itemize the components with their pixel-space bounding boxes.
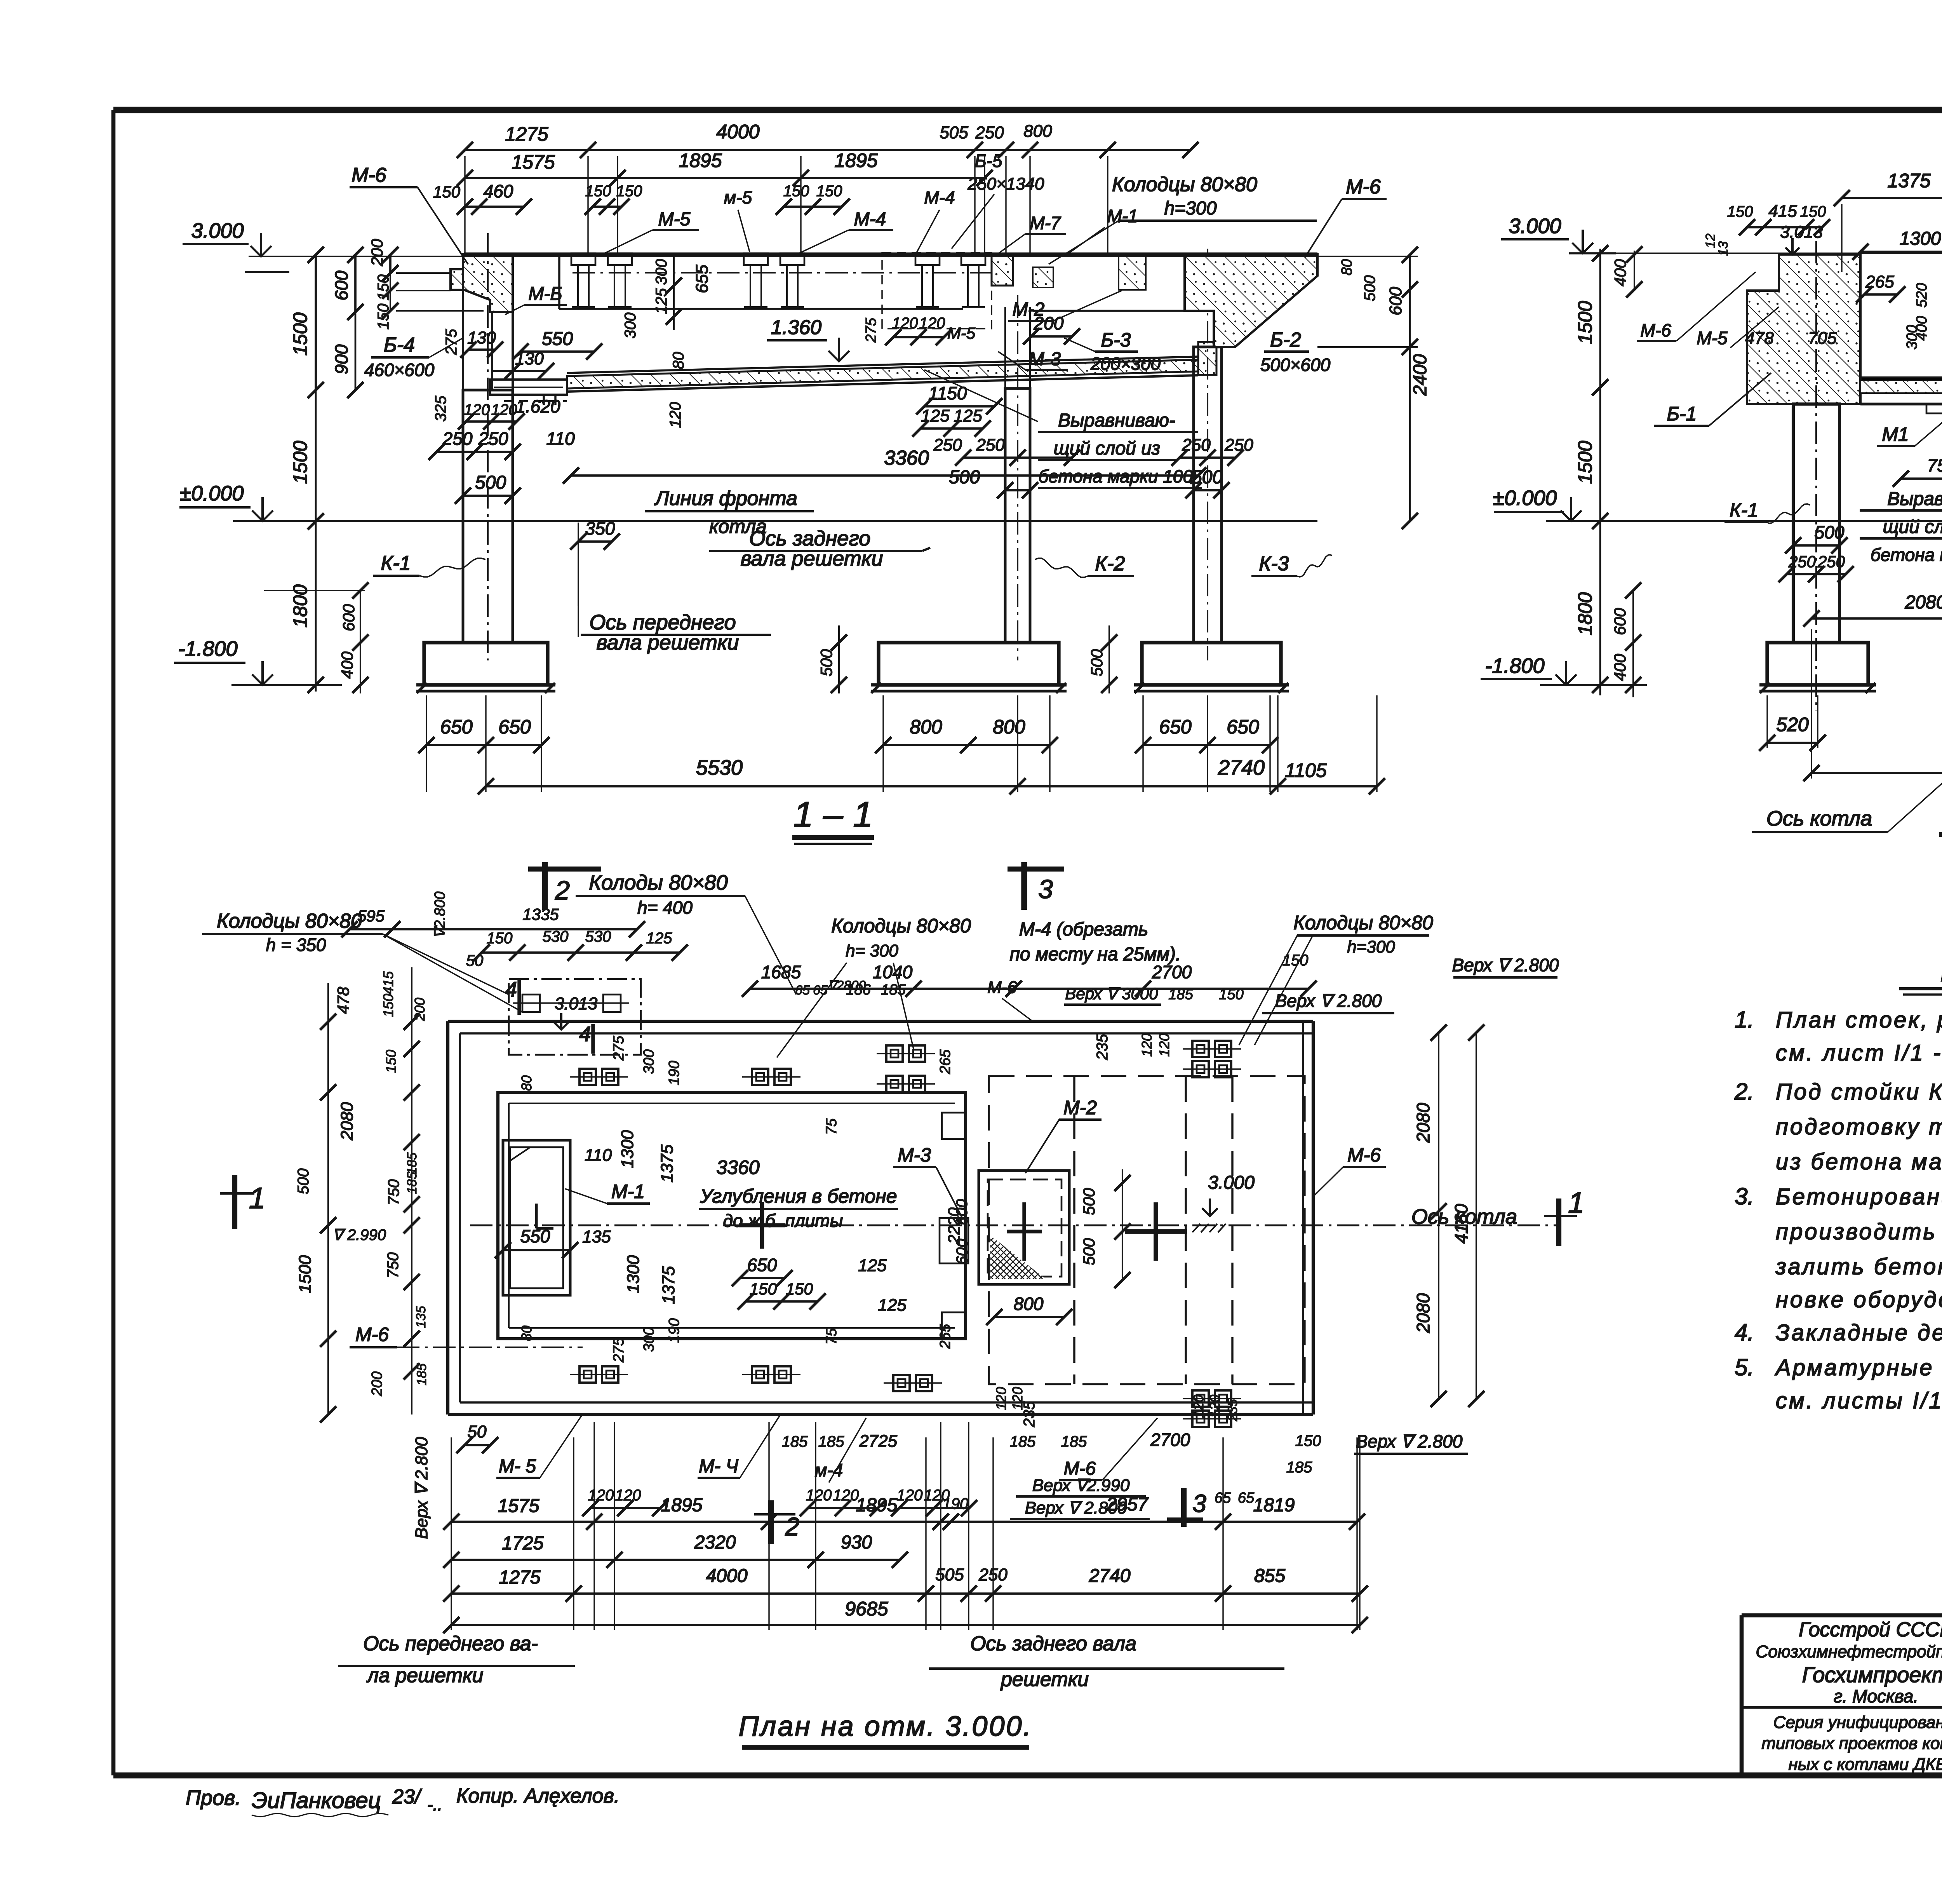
svg-text:150: 150 xyxy=(433,183,461,201)
svg-text:65: 65 xyxy=(795,983,810,998)
svg-text:65: 65 xyxy=(1215,1490,1231,1506)
svg-text:185: 185 xyxy=(782,1433,808,1450)
svg-text:300: 300 xyxy=(653,259,670,285)
svg-text:250: 250 xyxy=(933,435,962,455)
svg-text:М-7: М-7 xyxy=(1030,213,1061,233)
svg-text:150: 150 xyxy=(1727,203,1753,220)
svg-text:1105: 1105 xyxy=(1285,760,1327,781)
svg-text:вала решетки: вала решетки xyxy=(741,547,883,570)
svg-text:650: 650 xyxy=(747,1255,777,1275)
svg-text:530: 530 xyxy=(543,928,569,945)
svg-text:478: 478 xyxy=(334,986,352,1014)
svg-text:3.013: 3.013 xyxy=(1780,223,1823,242)
svg-text:см. листы I/1 - КЖ- 29 ÷ I/1 -: см. листы I/1 - КЖ- 29 ÷ I/1 - КЖ-37. xyxy=(1776,1388,1942,1413)
svg-text:h= 300: h= 300 xyxy=(846,941,898,960)
svg-text:800: 800 xyxy=(910,716,942,738)
svg-text:120: 120 xyxy=(667,402,684,428)
svg-text:500: 500 xyxy=(1080,1238,1098,1265)
svg-text:1375: 1375 xyxy=(1887,170,1930,192)
svg-text:Б-1: Б-1 xyxy=(1667,403,1697,425)
svg-text:М-3: М-3 xyxy=(1029,349,1061,369)
svg-text:подготовку толщиной 100мм.: подготовку толщиной 100мм. xyxy=(1776,1114,1942,1139)
svg-text:1: 1 xyxy=(1568,1186,1584,1219)
svg-text:1275: 1275 xyxy=(499,1567,541,1588)
svg-text:1.: 1. xyxy=(1735,1007,1754,1033)
svg-text:500: 500 xyxy=(949,467,980,488)
svg-text:2080: 2080 xyxy=(1413,1293,1433,1333)
svg-text:м-4: м-4 xyxy=(815,1460,843,1480)
svg-text:2080: 2080 xyxy=(1413,1103,1433,1143)
svg-text:Верх ∇2.990: Верх ∇2.990 xyxy=(1032,1476,1130,1495)
svg-text:500: 500 xyxy=(1080,1188,1098,1215)
svg-text:1575: 1575 xyxy=(498,1496,539,1516)
svg-text:80: 80 xyxy=(519,1326,534,1341)
svg-text:120: 120 xyxy=(924,1487,950,1504)
svg-text:1895: 1895 xyxy=(834,150,877,171)
svg-text:2700: 2700 xyxy=(1152,962,1192,982)
svg-text:1895: 1895 xyxy=(661,1495,703,1516)
svg-text:1819: 1819 xyxy=(1253,1495,1295,1516)
svg-text:75: 75 xyxy=(823,1328,840,1345)
svg-text:h= 400: h= 400 xyxy=(637,897,693,918)
svg-text:110: 110 xyxy=(585,1146,612,1165)
svg-text:2080: 2080 xyxy=(1905,592,1942,613)
svg-text:600: 600 xyxy=(331,270,352,300)
svg-text:К-3: К-3 xyxy=(1259,552,1289,575)
svg-text:300: 300 xyxy=(641,1327,657,1352)
svg-text:3: 3 xyxy=(1192,1489,1206,1517)
svg-text:460: 460 xyxy=(484,181,513,201)
svg-text:275: 275 xyxy=(611,1337,627,1362)
svg-text:Выравниваю-: Выравниваю- xyxy=(1887,489,1942,509)
svg-text:5.: 5. xyxy=(1735,1354,1754,1380)
svg-text:Колодцы 80×80: Колодцы 80×80 xyxy=(831,915,971,937)
svg-text:190: 190 xyxy=(666,1061,682,1085)
svg-text:550: 550 xyxy=(520,1226,550,1246)
svg-text:275: 275 xyxy=(443,329,460,355)
svg-text:855: 855 xyxy=(1254,1566,1285,1586)
svg-text:3.000: 3.000 xyxy=(1509,214,1561,238)
svg-text:1 – 1: 1 – 1 xyxy=(794,795,873,834)
svg-text:Ось котла: Ось котла xyxy=(1766,807,1872,830)
svg-text:120: 120 xyxy=(1156,1033,1172,1057)
svg-text:120: 120 xyxy=(897,1487,923,1504)
svg-text:Верх ∇ 2.800: Верх ∇ 2.800 xyxy=(1356,1431,1463,1451)
svg-text:150: 150 xyxy=(1800,203,1826,220)
svg-text:120: 120 xyxy=(615,1487,641,1504)
svg-text:120: 120 xyxy=(993,1387,1009,1410)
svg-text:Ось заднего: Ось заднего xyxy=(749,527,871,550)
svg-text:Госстрой СССР: Госстрой СССР xyxy=(1799,1618,1942,1641)
svg-text:520: 520 xyxy=(1776,714,1809,735)
svg-text:М-6: М-6 xyxy=(1346,176,1381,198)
svg-text:М- Ч: М- Ч xyxy=(699,1456,738,1477)
svg-text:2740: 2740 xyxy=(1218,756,1265,779)
svg-text:М-4: М-4 xyxy=(854,209,886,230)
svg-text:500×600: 500×600 xyxy=(1260,355,1331,375)
svg-text:500: 500 xyxy=(295,1169,312,1195)
svg-text:150: 150 xyxy=(585,183,611,200)
svg-text:190: 190 xyxy=(666,1318,682,1343)
svg-text:Закладные детали см. лист I/1: Закладные детали см. лист I/1 - КЖ- 38 xyxy=(1776,1320,1942,1345)
svg-text:415: 415 xyxy=(380,971,396,995)
svg-text:150: 150 xyxy=(1219,986,1243,1003)
svg-text:150: 150 xyxy=(375,275,392,301)
svg-text:135: 135 xyxy=(582,1227,611,1246)
svg-text:М-6: М-6 xyxy=(1640,320,1671,340)
svg-text:Б-2: Б-2 xyxy=(1270,329,1301,351)
svg-text:h = 350: h = 350 xyxy=(266,935,326,955)
svg-text:235: 235 xyxy=(1225,1399,1240,1422)
svg-text:Колодцы 80×80: Колодцы 80×80 xyxy=(1293,912,1433,934)
svg-text:1500: 1500 xyxy=(1574,301,1596,344)
svg-text:185: 185 xyxy=(1061,1433,1087,1450)
svg-text:h=300: h=300 xyxy=(1347,937,1395,956)
svg-text:250: 250 xyxy=(976,435,1005,455)
svg-text:1300: 1300 xyxy=(624,1255,643,1293)
svg-text:М-1: М-1 xyxy=(611,1181,645,1202)
svg-text:План стоек, разрез 3-3 и схему: План стоек, разрез 3-3 и схему нагрузок xyxy=(1776,1007,1942,1033)
svg-text:М-6: М-6 xyxy=(987,978,1017,997)
svg-text:265: 265 xyxy=(937,1324,954,1349)
svg-text:4000: 4000 xyxy=(716,121,759,143)
svg-text:Линия фронта: Линия фронта xyxy=(654,487,797,510)
svg-text:200: 200 xyxy=(368,239,386,267)
svg-text:120: 120 xyxy=(1190,1395,1206,1418)
svg-text:3.: 3. xyxy=(1735,1183,1754,1209)
svg-text:50: 50 xyxy=(466,952,484,969)
svg-text:М1: М1 xyxy=(1882,423,1909,445)
svg-text:±0.000: ±0.000 xyxy=(1493,486,1557,510)
svg-text:1040: 1040 xyxy=(873,962,913,982)
svg-text:Колоды 80×80: Колоды 80×80 xyxy=(589,871,727,894)
svg-text:1500: 1500 xyxy=(296,1255,315,1293)
svg-text:Б-4: Б-4 xyxy=(384,334,415,356)
svg-text:производить до волнистой линии: производить до волнистой линии , выше xyxy=(1776,1219,1942,1244)
svg-text:К-2: К-2 xyxy=(1095,552,1125,575)
svg-text:500: 500 xyxy=(1192,467,1223,488)
svg-text:Пров.: Пров. xyxy=(186,1786,241,1810)
svg-text:1300: 1300 xyxy=(1900,228,1941,249)
svg-text:∇ 2.990: ∇ 2.990 xyxy=(332,1226,386,1244)
svg-text:бетона марки „100”: бетона марки „100” xyxy=(1871,545,1942,565)
svg-text:80: 80 xyxy=(1339,259,1355,275)
svg-text:125: 125 xyxy=(858,1256,887,1275)
svg-text:120: 120 xyxy=(588,1487,614,1504)
svg-text:3360: 3360 xyxy=(884,447,929,469)
svg-text:Углубления в бетоне: Углубления в бетоне xyxy=(700,1185,897,1207)
svg-text:1725: 1725 xyxy=(502,1533,544,1554)
svg-text:65: 65 xyxy=(813,983,828,998)
svg-text:Копир. Алęхелов.: Копир. Алęхелов. xyxy=(456,1785,619,1807)
svg-text:Примечания:: Примечания: xyxy=(1940,955,1942,988)
svg-text:505: 505 xyxy=(935,1565,964,1584)
svg-text:М-4: М-4 xyxy=(924,187,955,207)
svg-text:залить бетоном с мелким гравие: залить бетоном с мелким гравием при уста… xyxy=(1775,1254,1942,1279)
svg-text:150: 150 xyxy=(783,183,809,200)
svg-text:щий слой из: щий слой из xyxy=(1054,438,1160,459)
svg-text:h=300: h=300 xyxy=(1164,198,1217,219)
svg-text:М-Б: М-Б xyxy=(528,284,562,304)
svg-text:150: 150 xyxy=(380,994,396,1017)
svg-text:200: 200 xyxy=(369,1371,385,1396)
svg-text:1575: 1575 xyxy=(512,151,555,173)
svg-text:300: 300 xyxy=(1904,325,1920,349)
svg-text:К-1: К-1 xyxy=(381,552,411,575)
svg-text:бетона марки 100·: бетона марки 100· xyxy=(1039,466,1199,486)
svg-text:550: 550 xyxy=(542,329,573,349)
svg-text:3.000: 3.000 xyxy=(1208,1172,1255,1193)
svg-text:М-2: М-2 xyxy=(1063,1097,1097,1118)
svg-text:Верх ∇ 2.800: Верх ∇ 2.800 xyxy=(1275,991,1382,1011)
svg-text:530: 530 xyxy=(585,928,611,945)
svg-text:65: 65 xyxy=(1238,1490,1255,1506)
svg-text:новке оборудования.: новке оборудования. xyxy=(1776,1287,1942,1312)
svg-text:4.: 4. xyxy=(1735,1319,1754,1345)
svg-text:750: 750 xyxy=(385,1252,402,1279)
svg-text:120: 120 xyxy=(464,401,490,418)
svg-text:ла решетки: ла решетки xyxy=(366,1664,484,1687)
svg-text:ных с котлами ДКВР.: ных с котлами ДКВР. xyxy=(1788,1755,1942,1774)
svg-text:705: 705 xyxy=(1808,329,1837,348)
svg-text:900: 900 xyxy=(331,344,352,374)
svg-text:80: 80 xyxy=(519,1075,534,1091)
svg-text:655: 655 xyxy=(693,265,712,293)
svg-text:125: 125 xyxy=(646,930,672,947)
svg-text:250: 250 xyxy=(1224,435,1253,455)
svg-text:М-1: М-1 xyxy=(1107,206,1138,226)
svg-text:М-6: М-6 xyxy=(352,164,386,186)
svg-text:Ось переднего: Ось переднего xyxy=(589,611,736,634)
svg-text:1500: 1500 xyxy=(289,312,311,355)
svg-text:4: 4 xyxy=(505,978,517,1001)
svg-text:3: 3 xyxy=(1038,874,1053,904)
svg-text:500: 500 xyxy=(475,472,506,493)
svg-text:1275: 1275 xyxy=(505,123,548,145)
svg-text:125: 125 xyxy=(878,1296,907,1315)
svg-text:120: 120 xyxy=(892,315,918,332)
svg-text:М-6: М-6 xyxy=(1347,1144,1381,1166)
svg-text:150: 150 xyxy=(375,304,392,330)
svg-text:800: 800 xyxy=(993,716,1025,738)
svg-text:9685: 9685 xyxy=(845,1598,888,1620)
svg-text:1.620: 1.620 xyxy=(515,396,560,416)
svg-text:120: 120 xyxy=(1207,1395,1223,1418)
svg-text:2080: 2080 xyxy=(338,1102,357,1141)
svg-text:150: 150 xyxy=(487,930,513,947)
svg-text:Верх ∇ 2.800: Верх ∇ 2.800 xyxy=(1452,955,1559,975)
svg-text:М- 5: М- 5 xyxy=(499,1456,536,1477)
svg-text:Верх ∇ 2.800: Верх ∇ 2.800 xyxy=(412,1437,431,1539)
svg-text:505: 505 xyxy=(940,123,968,142)
svg-text:4160: 4160 xyxy=(1451,1204,1471,1244)
svg-text:120: 120 xyxy=(919,315,945,332)
svg-text:275: 275 xyxy=(611,1035,627,1061)
svg-text:4000: 4000 xyxy=(706,1566,748,1586)
svg-text:120: 120 xyxy=(1139,1033,1155,1057)
svg-text:1895: 1895 xyxy=(856,1495,898,1516)
svg-text:±0.000: ±0.000 xyxy=(180,482,244,505)
svg-text:520: 520 xyxy=(1914,283,1930,307)
svg-text:235: 235 xyxy=(1094,1034,1111,1060)
svg-text:Ось переднего ва-: Ось переднего ва- xyxy=(363,1632,538,1655)
svg-text:500: 500 xyxy=(817,649,835,676)
svg-text:1300: 1300 xyxy=(618,1130,637,1168)
svg-text:185: 185 xyxy=(1010,1433,1036,1450)
svg-text:М-6: М-6 xyxy=(355,1324,389,1345)
svg-text:150: 150 xyxy=(816,183,842,200)
svg-text:М-5: М-5 xyxy=(947,324,976,342)
svg-text:2: 2 xyxy=(555,876,570,905)
svg-text:см. лист I/1 - КЖ-28.: см. лист I/1 - КЖ-28. xyxy=(1776,1040,1942,1066)
svg-text:120: 120 xyxy=(833,1487,859,1504)
svg-text:185: 185 xyxy=(818,1433,844,1450)
svg-text:650: 650 xyxy=(498,716,531,738)
svg-text:Верх ∇ 3000: Верх ∇ 3000 xyxy=(1065,984,1158,1003)
svg-text:600: 600 xyxy=(1611,608,1629,635)
svg-text:200×300: 200×300 xyxy=(1090,354,1161,374)
svg-text:120: 120 xyxy=(1009,1387,1025,1410)
svg-text:м-5: м-5 xyxy=(724,187,752,207)
svg-text:750: 750 xyxy=(1927,455,1942,476)
svg-text:1800: 1800 xyxy=(1574,592,1596,635)
svg-text:М-4 (обрезать: М-4 (обрезать xyxy=(1019,919,1148,940)
svg-text:-..: -.. xyxy=(427,1795,442,1814)
svg-text:500: 500 xyxy=(1361,275,1378,301)
svg-text:План на отм. 3.000.: План на отм. 3.000. xyxy=(739,1711,1033,1742)
svg-text:300: 300 xyxy=(622,313,639,339)
svg-text:5530: 5530 xyxy=(696,756,743,779)
svg-text:3.000: 3.000 xyxy=(191,219,244,242)
svg-text:150: 150 xyxy=(616,183,642,200)
svg-text:М-3: М-3 xyxy=(898,1144,931,1166)
svg-text:75: 75 xyxy=(823,1118,840,1135)
svg-text:250: 250 xyxy=(442,429,473,449)
svg-text:К-1: К-1 xyxy=(1730,499,1758,521)
svg-text:Выравниваю-: Выравниваю- xyxy=(1058,410,1175,431)
svg-text:Союзхимнефтестройпроект: Союзхимнефтестройпроект xyxy=(1756,1642,1942,1661)
svg-text:800: 800 xyxy=(1014,1294,1044,1314)
svg-text:-1.800: -1.800 xyxy=(178,637,237,660)
svg-text:2740: 2740 xyxy=(1089,1566,1131,1586)
svg-text:930: 930 xyxy=(841,1532,872,1553)
svg-text:2320: 2320 xyxy=(694,1532,736,1553)
svg-text:1375: 1375 xyxy=(658,1144,677,1183)
svg-text:110: 110 xyxy=(546,429,575,449)
svg-text:решетки: решетки xyxy=(1000,1668,1089,1691)
svg-text:120: 120 xyxy=(806,1487,832,1504)
svg-text:500: 500 xyxy=(1088,649,1106,676)
svg-text:1335: 1335 xyxy=(522,905,559,923)
svg-text:Колодцы 80×80: Колодцы 80×80 xyxy=(1112,173,1257,196)
svg-text:600: 600 xyxy=(339,604,358,631)
svg-text:800: 800 xyxy=(1023,122,1052,141)
svg-text:2: 2 xyxy=(785,1512,800,1541)
svg-text:Ось заднего вала: Ось заднего вала xyxy=(970,1632,1136,1655)
svg-text:23/: 23/ xyxy=(392,1786,422,1808)
svg-text:150: 150 xyxy=(786,1280,813,1298)
svg-text:-1.800: -1.800 xyxy=(1485,654,1544,678)
svg-text:вала решетки: вала решетки xyxy=(597,631,739,654)
svg-text:Госхимпроект: Госхимпроект xyxy=(1802,1662,1942,1687)
svg-text:2725: 2725 xyxy=(859,1432,897,1451)
svg-text:Б-5: Б-5 xyxy=(975,151,1002,171)
svg-text:150: 150 xyxy=(1282,952,1309,969)
svg-text:щий слой из: щий слой из xyxy=(1883,517,1942,537)
svg-text:415: 415 xyxy=(1768,202,1797,221)
svg-text:∇2.800: ∇2.800 xyxy=(432,892,448,939)
svg-text:595: 595 xyxy=(357,907,385,925)
svg-text:ЭиПанковец: ЭиПанковец xyxy=(252,1788,381,1813)
svg-text:750: 750 xyxy=(385,1179,402,1205)
svg-text:М-5: М-5 xyxy=(1697,328,1728,348)
svg-text:250: 250 xyxy=(975,123,1004,142)
svg-text:по месту на 25мм).: по месту на 25мм). xyxy=(1010,944,1181,965)
svg-text:275: 275 xyxy=(863,317,879,343)
svg-text:135: 135 xyxy=(414,1306,428,1328)
svg-text:Бетонирование консоли (см разр: Бетонирование консоли (см разрез 2-2) xyxy=(1776,1184,1942,1209)
svg-text:1500: 1500 xyxy=(289,441,311,484)
svg-text:1375: 1375 xyxy=(659,1266,678,1304)
svg-text:300: 300 xyxy=(641,1049,657,1074)
svg-text:265: 265 xyxy=(937,1049,954,1074)
svg-text:Колодцы 80×80: Колодцы 80×80 xyxy=(217,910,362,932)
svg-text:150: 150 xyxy=(1295,1432,1321,1449)
svg-text:185: 185 xyxy=(1286,1459,1312,1476)
svg-text:2700: 2700 xyxy=(1150,1430,1190,1450)
svg-text:185: 185 xyxy=(1168,986,1193,1003)
svg-text:Под стойки К-1, К-2 и К-3 сдел: Под стойки К-1, К-2 и К-3 сделать бетонн… xyxy=(1776,1079,1942,1104)
svg-text:1500: 1500 xyxy=(1574,441,1596,484)
svg-text:Арматурные чертежи фундамента: Арматурные чертежи фундамента xyxy=(1775,1355,1942,1380)
svg-text:2220: 2220 xyxy=(945,1207,963,1244)
svg-text:1895: 1895 xyxy=(679,150,722,171)
svg-text:2.: 2. xyxy=(1734,1078,1754,1104)
svg-text:г. Москва.: г. Москва. xyxy=(1834,1686,1918,1706)
svg-text:3.013: 3.013 xyxy=(555,994,598,1013)
svg-text:150: 150 xyxy=(383,1050,399,1073)
svg-text:М-5: М-5 xyxy=(658,209,691,230)
svg-text:2400: 2400 xyxy=(1410,354,1430,396)
svg-text:Б-3: Б-3 xyxy=(1101,329,1131,351)
svg-text:650: 650 xyxy=(1159,716,1192,738)
svg-text:325: 325 xyxy=(432,395,449,422)
svg-text:650: 650 xyxy=(440,716,473,738)
svg-text:185: 185 xyxy=(881,982,906,998)
svg-text:1: 1 xyxy=(249,1182,265,1215)
svg-text:М-2: М-2 xyxy=(1013,299,1045,320)
svg-text:типовых проектов котель-: типовых проектов котель- xyxy=(1761,1734,1942,1753)
svg-text:600: 600 xyxy=(1386,287,1405,315)
svg-text:из бетона марки „50.”: из бетона марки „50.” xyxy=(1776,1149,1942,1174)
svg-text:460×600: 460×600 xyxy=(364,360,435,380)
svg-text:350: 350 xyxy=(585,518,615,538)
svg-text:до ж.б. плиты: до ж.б. плиты xyxy=(723,1211,843,1231)
svg-text:400: 400 xyxy=(338,651,356,679)
svg-text:4: 4 xyxy=(579,1023,591,1046)
svg-text:500: 500 xyxy=(1815,522,1845,542)
svg-text:Верх ∇ 2.800: Верх ∇ 2.800 xyxy=(1025,1498,1127,1517)
svg-text:3360: 3360 xyxy=(716,1157,759,1178)
svg-text:650: 650 xyxy=(1227,716,1259,738)
svg-text:Серия унифицированных: Серия унифицированных xyxy=(1773,1713,1942,1732)
svg-text:400: 400 xyxy=(1611,653,1629,681)
svg-text:1.360: 1.360 xyxy=(771,316,821,339)
svg-text:80: 80 xyxy=(670,352,687,369)
svg-text:13: 13 xyxy=(1716,241,1731,256)
